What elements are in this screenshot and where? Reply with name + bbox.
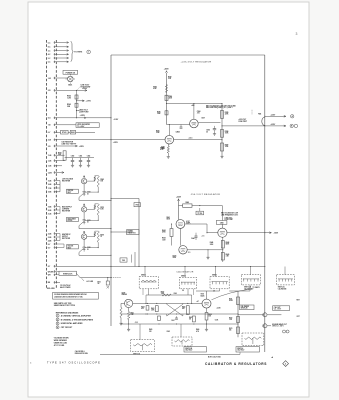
leader curve to V675: [212, 289, 254, 300]
output +225V unreg: [265, 125, 286, 127]
left input resistor R658: [121, 302, 125, 304]
label box SW675-3B: [184, 347, 206, 352]
cal out line: [238, 314, 263, 316]
fuse box F601: [134, 203, 140, 207]
svg-text:B601: B601: [68, 85, 72, 87]
svg-text:-3.5: -3.5: [188, 252, 191, 254]
svg-text:+225 VOLT: +225 VOLT: [239, 119, 247, 121]
svg-text:25: 25: [87, 249, 89, 251]
svg-text:R586: R586: [225, 131, 229, 133]
wire V583 plate to divider: [198, 122, 220, 124]
wire +225 feed to fuse column: [222, 125, 265, 127]
grid stopper Q570: [87, 208, 95, 210]
switch wafer SW675-2C: [277, 275, 295, 285]
svg-text:LOW POINT: LOW POINT: [79, 111, 90, 113]
grid stopper Q580: [87, 236, 95, 238]
svg-text:1.8K: 1.8K: [131, 314, 134, 316]
svg-text:R585: R585: [225, 112, 229, 114]
svg-text:SILICON: SILICON: [68, 246, 74, 248]
svg-text:RT601: RT601: [62, 132, 67, 134]
svg-text:R587: R587: [225, 144, 229, 146]
wire pin 7 to pilot lamp: [56, 77, 67, 79]
svg-text:Q608: Q608: [122, 293, 126, 295]
label box SILICON: [67, 189, 79, 193]
svg-text:F601: F601: [136, 205, 139, 207]
cal out label box: [273, 306, 290, 311]
capacitor C583: [180, 125, 182, 128]
tube V675: [202, 299, 211, 308]
cal out terminal: [263, 313, 267, 317]
svg-text:+350V: +350V: [164, 68, 170, 70]
switch wafer SW675-2B: [241, 275, 260, 285]
capacitor C561: [80, 158, 82, 161]
switch arm Q570: [79, 222, 83, 226]
svg-text:1.2M: 1.2M: [67, 98, 71, 100]
wire pin 10 to note box: [56, 124, 76, 126]
resistor R663: [155, 306, 158, 312]
wire filter cap rail: [56, 154, 64, 156]
cathode rail Q570: [83, 222, 85, 224]
svg-text:12B4: 12B4: [176, 130, 180, 133]
resistor R649: [221, 253, 224, 261]
legend item 1: [56, 314, 59, 317]
wire wafer connections: [139, 324, 141, 340]
svg-text:15K: 15K: [208, 316, 211, 318]
svg-text:TP-150: TP-150: [197, 213, 202, 215]
svg-text:B.W.H. JULY 1965: B.W.H. JULY 1965: [208, 357, 221, 359]
label box TP-150: [196, 211, 204, 215]
tube V637 12B4: [218, 228, 227, 237]
wire V634 to V637: [185, 223, 207, 225]
svg-text:R588: R588: [160, 147, 164, 149]
wire bus into calibrator: [111, 325, 121, 327]
svg-text:SW675: SW675: [141, 275, 146, 277]
svg-text:C660: C660: [174, 293, 178, 295]
svg-text:C665: C665: [167, 331, 171, 333]
cathode resistor R588: [167, 144, 169, 146]
capacitor C560: [72, 158, 74, 161]
svg-text:CRT CIRCUIT: CRT CIRCUIT: [61, 327, 73, 329]
resistor R565: [97, 176, 99, 187]
wire pin 17 stub: [56, 172, 63, 174]
wire V584 output line +225: [174, 139, 222, 141]
tube V583 6AU6: [190, 119, 199, 128]
ground under Q608: [128, 324, 130, 328]
capacitor C667: [176, 316, 178, 318]
output rail Q580: [79, 254, 111, 256]
bottom wafer SW675-3B: [172, 337, 192, 346]
svg-text:V675: V675: [201, 294, 205, 296]
ground under V584: [167, 155, 170, 158]
wire V636 grid line: [187, 249, 223, 251]
supply arrow +350V: [166, 73, 168, 125]
leader dashes under MAX VOLTAGE note: [251, 110, 253, 115]
resistor R585: [221, 111, 224, 119]
svg-text:B CHANNEL & TRIGGER AMPLIFIERS: B CHANNEL & TRIGGER AMPLIFIERS: [61, 318, 94, 321]
svg-text:R602: R602: [71, 132, 75, 134]
cal mode pointer line: [100, 353, 240, 355]
wire V634 cathode to V636: [179, 228, 181, 245]
svg-text:-150-VOLT REGULATOR: -150-VOLT REGULATOR: [190, 193, 220, 196]
bus right vertical: [264, 55, 266, 352]
transformer label box T601 winding: [120, 258, 127, 262]
label box HALF-WAVE: [67, 217, 79, 221]
bus ground rail: [56, 266, 264, 268]
svg-text:1: 1: [88, 52, 89, 54]
svg-text:1-W: 1-W: [48, 78, 51, 80]
svg-text:CURRENT: CURRENT: [62, 209, 69, 211]
collector arrow Q560: [83, 176, 85, 179]
wire cathode line V583: [167, 124, 190, 126]
wire wafer feed stubs from ground rail: [144, 267, 146, 277]
svg-text:-12.2: -12.2: [135, 322, 138, 324]
cathode rail Q580: [83, 250, 85, 252]
svg-text:10: 10: [100, 236, 102, 238]
resistor R583: [165, 85, 167, 93]
svg-text:HIGH POINT: HIGH POINT: [81, 86, 92, 88]
svg-text:POWER: POWER: [128, 231, 133, 233]
interlock wires from pins: [56, 271, 59, 273]
emitter resistor R661: [128, 308, 130, 312]
wire stage3 winding stubs: [56, 233, 60, 235]
svg-text:LINE FREQUENCY (50~): LINE FREQUENCY (50~): [221, 214, 239, 216]
interlock switch wire: [76, 273, 80, 277]
wire transformer primary label feed: [111, 231, 133, 233]
resistor R587: [221, 143, 224, 151]
tube V584 12B4: [165, 135, 174, 144]
svg-text:3: 3: [296, 32, 298, 36]
svg-text:TYPE 547 OSCILLOSCOPE: TYPE 547 OSCILLOSCOPE: [47, 361, 101, 365]
switch arm Q560: [79, 194, 83, 198]
svg-text:-150V: -150V: [273, 233, 279, 235]
svg-text:5.6K RESISTOR: 5.6K RESISTOR: [62, 142, 74, 144]
interlock box: [59, 271, 76, 275]
wire V675 plate: [206, 291, 208, 299]
svg-text:3: 3: [57, 323, 58, 325]
legend item 4: [56, 326, 59, 329]
resistor R584B: [165, 111, 168, 115]
switch wafer SW675-1A: [139, 277, 158, 289]
svg-text:+225V: +225V: [176, 197, 182, 199]
heater elevation note box: [76, 123, 99, 128]
svg-text:SW675: SW675: [181, 275, 186, 277]
AC line wire: [80, 277, 111, 279]
square wave out terminal: [263, 324, 267, 328]
fuse F586: [262, 117, 265, 126]
svg-text:RECT: RECT: [68, 192, 72, 194]
svg-text:F586: F586: [258, 114, 261, 116]
resistor R671: [237, 297, 240, 305]
switch wafer SW675-1B: [179, 277, 196, 289]
svg-text:120K: 120K: [151, 310, 154, 312]
svg-text:+175V: +175V: [86, 101, 92, 103]
output rail Q560: [79, 199, 111, 201]
switch wafer SW675-2A: [210, 277, 229, 289]
svg-text:RECT: RECT: [68, 248, 72, 250]
resistor R586: [221, 130, 224, 138]
supply arrow +225V: [178, 199, 180, 201]
junction dots calibrator rails: [145, 313, 146, 314]
svg-text:LOW POINT: LOW POINT: [225, 219, 234, 221]
svg-text:1B: 1B: [182, 290, 184, 292]
svg-text:R583: R583: [153, 87, 157, 89]
wire pin 13 +325V stub: [56, 145, 77, 147]
grid stopper Q560: [87, 180, 95, 182]
svg-text:RECTIFIER: RECTIFIER: [62, 238, 71, 240]
note box: [53, 292, 99, 299]
svg-text:R579: R579: [100, 234, 104, 236]
svg-text:1.5K: 1.5K: [229, 319, 232, 321]
svg-text:RECTIFIER: RECTIFIER: [62, 211, 71, 213]
resistor R579: [97, 231, 99, 242]
wire pin 12 grid line to V634 12B4: [56, 139, 165, 141]
svg-text:SW675: SW675: [212, 275, 217, 277]
cross coupling wires: [167, 304, 183, 316]
emitter wire Q570: [83, 212, 85, 220]
heater supply wires to pins 1-6: [56, 42, 68, 44]
AC line dashed continuation: [111, 277, 121, 279]
svg-text:25: 25: [87, 193, 89, 195]
bus top rail +350V: [111, 54, 265, 56]
emitter wire Q560: [83, 184, 85, 192]
V675 cathode resistor: [206, 308, 208, 312]
output rail Q570: [79, 228, 111, 230]
ground under divider: [220, 155, 223, 158]
svg-text:+67: +67: [197, 301, 200, 303]
svg-text:TO SW675: TO SW675: [253, 287, 260, 289]
svg-text:+16.5: +16.5: [189, 137, 193, 139]
bottom wafer SW675-3A: [131, 340, 155, 352]
output +225V: [265, 115, 286, 117]
svg-text:+350V: +350V: [82, 88, 88, 90]
diode D580: [83, 247, 86, 250]
svg-text:25: 25: [206, 131, 208, 133]
diode D560: [83, 192, 86, 195]
bottom wafer SW675-4: [242, 333, 264, 346]
svg-text:23-9: 23-9: [48, 140, 51, 142]
label box 12B4 V637: [216, 221, 227, 225]
transformer winding stub wire: [134, 252, 136, 267]
resistor R673: [237, 327, 240, 334]
svg-text:TO +105V: TO +105V: [77, 126, 85, 128]
collector arrow Q580: [83, 231, 85, 234]
resistor R662: [146, 306, 149, 310]
svg-text:SUPPLY: SUPPLY: [62, 236, 68, 238]
svg-text:C562: C562: [87, 156, 91, 158]
svg-text:FILTER: FILTER: [68, 220, 73, 222]
thermal resistor box RT601: [61, 130, 69, 134]
svg-text:R560: R560: [58, 152, 62, 154]
svg-text:4: 4: [30, 362, 31, 365]
thermal resistor box R602: [70, 130, 75, 134]
svg-text:R565: R565: [100, 179, 104, 181]
transistor Q570: [81, 207, 86, 212]
node +175V test point: [77, 100, 85, 102]
svg-text:INTERLOCK: INTERLOCK: [63, 273, 73, 275]
heater diagram reference symbol: [87, 50, 91, 54]
divider stem: [221, 104, 223, 156]
fuse F601 on AC line: [107, 278, 109, 281]
svg-text:A CHANNEL VERTICAL AMPLIFIER: A CHANNEL VERTICAL AMPLIFIER: [61, 314, 92, 317]
svg-text:SILICON: SILICON: [68, 190, 74, 192]
multivibrator top rail: [133, 302, 202, 304]
svg-text:.001: .001: [197, 113, 200, 115]
svg-text:+225-VOLT REGULATOR: +225-VOLT REGULATOR: [181, 61, 212, 64]
svg-text:27K: 27K: [149, 331, 152, 333]
svg-text:R677: R677: [297, 300, 301, 302]
wire screen tap: [167, 103, 223, 105]
svg-text:C677: C677: [297, 316, 301, 318]
wire pin 11 through boxes: [56, 131, 60, 133]
pilot lamp B601: [68, 76, 74, 82]
svg-text:SEMICONDUCTOR TYPES: SEMICONDUCTOR TYPES: [54, 305, 76, 307]
wire pin 8 +350V test line: [56, 89, 86, 91]
capacitor C585: [214, 126, 216, 129]
switch arm Q580: [79, 249, 83, 253]
svg-text:+7.5: +7.5: [202, 235, 205, 237]
label box SILICON: [67, 245, 79, 249]
svg-text:C561: C561: [79, 156, 83, 158]
connector J601 dashed body right edge: [55, 40, 57, 288]
transistor Q608: [125, 299, 133, 307]
emitter wire Q580: [83, 239, 85, 247]
svg-text:POWER ON: POWER ON: [66, 72, 76, 74]
label box CAL RANGE: [240, 305, 255, 310]
svg-text:+105V: +105V: [113, 142, 119, 144]
wire R640 to V637 plate: [192, 205, 222, 207]
sheet title diamond symbol: [283, 361, 289, 367]
transformer label box T601: [127, 230, 140, 235]
resistor R640: [183, 204, 192, 207]
line input wire: [56, 281, 60, 283]
resistor R648: [221, 241, 224, 249]
wire transformer primary taps: [56, 180, 60, 182]
wire spare taps: [56, 243, 64, 245]
svg-text:C585: C585: [206, 130, 210, 132]
svg-text:1: 1: [57, 315, 58, 317]
resistor R642: [170, 229, 173, 237]
resistor R668: [158, 316, 161, 320]
legend item 3: [56, 322, 59, 325]
bus +105V vertical: [110, 55, 112, 326]
collector arrow Q570: [83, 204, 85, 207]
connector J601 dashed body left edge: [46, 40, 48, 288]
wire stage2 winding stubs: [56, 206, 60, 208]
transistor Q580: [81, 234, 86, 239]
svg-text:CALIBRATOR & REGULATORS: CALIBRATOR & REGULATORS: [205, 362, 267, 366]
wire top feeds: [146, 294, 192, 296]
resistor R560: [63, 151, 66, 160]
svg-text:+125V: +125V: [80, 115, 86, 117]
multivibrator bottom rail: [121, 323, 238, 325]
resistor R672: [237, 317, 240, 323]
svg-text:166: 166: [229, 330, 232, 332]
svg-text:SW675-2B: SW675-2B: [241, 308, 248, 310]
svg-text:REFERENCE DIAGRAMS: REFERENCE DIAGRAMS: [56, 311, 79, 314]
resistor R667: [193, 316, 196, 322]
wire bleeder stem: [76, 90, 78, 117]
legend item 2: [56, 318, 59, 321]
svg-text:T601: T601: [122, 260, 125, 262]
cathode rail Q560: [83, 194, 85, 196]
wire wafer B stub: [142, 289, 144, 295]
svg-text:V636: V636: [173, 257, 177, 259]
label box SW675-4: [236, 347, 259, 352]
svg-text:150K: 150K: [161, 293, 164, 295]
resistor R664: [186, 306, 189, 315]
tube V636 6AU6: [179, 246, 187, 254]
diode D570: [83, 220, 86, 223]
svg-text:TO HTRS: TO HTRS: [74, 52, 83, 54]
node +125V test point: [77, 110, 80, 112]
svg-text:C667: C667: [171, 320, 175, 322]
svg-text:LINE VOLT TEST PT: LINE VOLT TEST PT: [62, 143, 77, 145]
svg-text:4: 4: [57, 326, 58, 329]
svg-text:R575: R575: [100, 207, 104, 209]
capacitor C644: [195, 233, 197, 236]
tube V634 6AU6: [176, 220, 185, 229]
capacitor C562: [88, 158, 90, 161]
svg-text:6197: 6197: [202, 117, 206, 119]
resistor R563: [75, 103, 78, 107]
POWER ON label box: [63, 70, 78, 74]
svg-text:8.25K: 8.25K: [229, 300, 233, 302]
svg-text:0.2 - 100 V: 0.2 - 100 V: [274, 309, 281, 311]
wire -150 output: [227, 232, 265, 234]
svg-text:LINE VOLT: LINE VOLT: [225, 217, 233, 219]
resistor R660: [162, 294, 171, 296]
svg-text:+225V: +225V: [217, 307, 221, 309]
svg-text:WH-BK: WH-BK: [48, 271, 54, 273]
svg-text:6197: 6197: [186, 221, 190, 223]
feed line vertical x139: [138, 199, 140, 267]
svg-text:+325V: +325V: [79, 146, 85, 148]
svg-text:2: 2: [57, 319, 58, 321]
leader LINE VOLT HIGH POINT: [78, 87, 81, 90]
svg-text:HORIZONTAL AMPLIFIER: HORIZONTAL AMPLIFIER: [61, 322, 83, 325]
heater group brace: [71, 41, 74, 61]
resistor R584: [165, 95, 168, 100]
svg-text:C560: C560: [71, 156, 75, 158]
svg-text:25: 25: [87, 222, 89, 224]
ground near V636: [206, 256, 209, 259]
resistor R575: [97, 204, 99, 215]
wire pin 9 +105V rail to bus: [56, 117, 111, 119]
svg-text:FUSE PROT: FUSE PROT: [239, 121, 248, 123]
wire +325V unreg feed from bus: [111, 198, 139, 200]
cal range divider stem: [237, 291, 239, 337]
wire wafer D to range chain: [249, 285, 251, 291]
divider -150 stem: [222, 237, 224, 262]
transistor Q560: [81, 178, 86, 183]
multivibrator mid rail: [121, 313, 238, 315]
svg-text:1 kHz 0.2 - 100 V: 1 kHz 0.2 - 100 V: [272, 326, 284, 328]
leader +225 VOLT LOW POINT: [79, 109, 81, 112]
resistor R562: [75, 95, 78, 99]
svg-text:RECTIFIER: RECTIFIER: [62, 181, 71, 183]
